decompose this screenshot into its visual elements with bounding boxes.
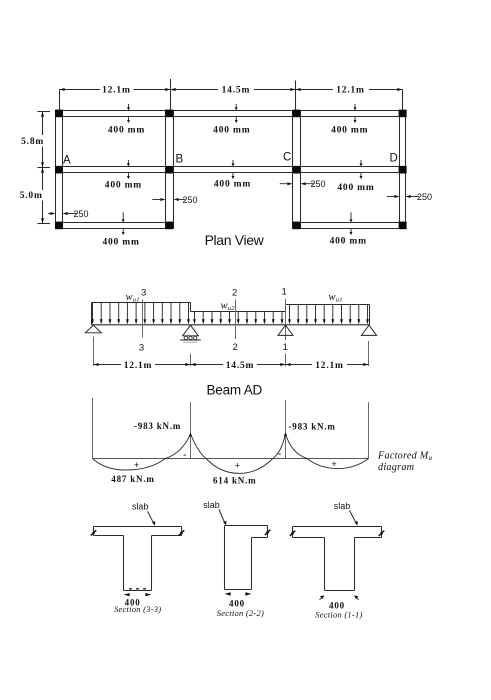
svg-text:400 mm: 400 mm — [331, 126, 368, 136]
column B-b (black square) — [165, 222, 173, 230]
top dimension extension line at B — [170, 79, 172, 110]
section 2-2: slab label + leader — [203, 500, 226, 526]
svg-text:2: 2 — [233, 342, 238, 353]
column C-m (black square) — [292, 166, 300, 174]
svg-text:wu1: wu1 — [329, 292, 343, 304]
moment diagram baseline — [93, 458, 369, 460]
moment diagram vertical at B — [190, 402, 192, 458]
label 400 mm (b row at x=348.2) with arrows — [330, 212, 367, 246]
svg-text:5.0m: 5.0m — [20, 191, 43, 201]
column line C (double vertical) — [293, 111, 301, 229]
svg-text:3: 3 — [141, 288, 146, 299]
moment curve — [93, 434, 369, 474]
svg-text:Factored Mu: Factored Mu — [377, 450, 433, 462]
section 3-3: rebar dashes — [129, 588, 146, 590]
beam line top (double) — [56, 111, 406, 117]
svg-text:400 mm: 400 mm — [213, 126, 250, 136]
column C-t (black square) — [292, 110, 300, 118]
svg-text:2: 2 — [232, 287, 237, 298]
svg-text:+: + — [235, 462, 241, 472]
support D (pin triangle) — [361, 325, 376, 335]
svg-text:wu2: wu2 — [221, 300, 236, 312]
beam dimension 12.1m (A-B) — [94, 361, 191, 371]
label 400 mm (m row at x=232.5) with arrows — [214, 160, 251, 189]
section 3-3: slab break marks — [91, 530, 185, 535]
label 400 mm (t row at x=231.8) with arrows — [213, 104, 250, 136]
column line D (double vertical) — [400, 111, 406, 229]
label 400 mm (t row at x=126.5) with arrows — [108, 104, 145, 136]
beam line bottom right bay (double) — [293, 223, 406, 229]
svg-text:Plan View: Plan View — [205, 232, 265, 248]
svg-text:487 kN.m: 487 kN.m — [111, 474, 154, 484]
svg-text:-983 kN.m: -983 kN.m — [289, 421, 336, 431]
caption Factored Mu diagram — [377, 450, 433, 473]
section 1-1: slab label + leader — [334, 501, 358, 526]
support A (pin triangle) — [85, 325, 101, 333]
label 250 at column D — [387, 192, 432, 202]
label 400 mm (b row at x=121.1) with arrows — [102, 212, 139, 247]
label 250 at column A — [48, 209, 89, 219]
svg-text:5.8m: 5.8m — [21, 137, 44, 147]
svg-text:C: C — [283, 152, 291, 164]
section 2-2: flange break mark — [265, 530, 271, 535]
beam line middle A-B-C-D (double) — [56, 167, 406, 173]
dimension 14.5m (B-C) — [171, 85, 296, 95]
svg-text:250: 250 — [74, 209, 89, 219]
label 400 mm (t row at x=349.7) with arrows — [331, 104, 368, 136]
column D-m (black square) — [399, 166, 407, 174]
column A-m (black square) — [55, 166, 63, 174]
section 2-2: 400 width arrows — [225, 592, 252, 595]
svg-text:slab: slab — [203, 500, 220, 510]
column A-b (black square) — [55, 222, 63, 230]
dimension 12.1m (A-B) — [60, 85, 171, 95]
svg-text:12.1m: 12.1m — [315, 361, 344, 371]
svg-text:diagram: diagram — [378, 462, 414, 473]
distributed load right span (rect + arrows) — [286, 305, 370, 325]
section 1-1: 400 width arrows — [320, 595, 359, 599]
moment diagram vertical at C — [285, 400, 287, 458]
svg-text:+: + — [134, 461, 140, 471]
svg-text:D: D — [390, 153, 398, 165]
beam dimension 14.5m (B-C) — [191, 361, 286, 371]
svg-text:400 mm: 400 mm — [337, 183, 374, 193]
svg-text:slab: slab — [132, 502, 149, 512]
column B-t (black square) — [165, 110, 173, 118]
label 400 mm (m row at x=123.4) with arrows — [105, 160, 142, 191]
column A-t (black square) — [55, 110, 63, 118]
section 1-1: web — [325, 538, 355, 591]
svg-text:B: B — [176, 154, 184, 166]
dimension 12.1m (C-D) — [296, 85, 403, 95]
moment diagram vertical at D — [368, 402, 370, 458]
distributed load middle span (rect + arrows) — [191, 312, 286, 325]
svg-text:12.1m: 12.1m — [102, 85, 131, 95]
svg-text:14.5m: 14.5m — [222, 85, 251, 95]
section line 2-2 — [232, 287, 238, 353]
svg-text:-983 kN.m: -983 kN.m — [134, 421, 181, 431]
svg-text:250: 250 — [183, 195, 198, 205]
svg-text:14.5m: 14.5m — [226, 361, 255, 371]
svg-text:Beam AD: Beam AD — [206, 382, 262, 397]
column C-b (black square) — [292, 222, 300, 230]
moment peak mark at C — [284, 432, 287, 436]
svg-text:400 mm: 400 mm — [214, 179, 251, 189]
support B (roller: triangle + circles + ground line) — [180, 325, 201, 342]
top dimension extension line at C — [295, 81, 297, 110]
svg-text:-: - — [183, 449, 187, 460]
svg-text:250: 250 — [311, 179, 326, 189]
support C (pin triangle) — [278, 325, 293, 335]
svg-text:3: 3 — [139, 343, 144, 354]
label 250 at column B — [152, 195, 197, 205]
beam dim extension lines — [94, 337, 369, 367]
svg-text:250: 250 — [417, 192, 432, 202]
beam AD horizontal line — [92, 324, 370, 326]
svg-text:400 mm: 400 mm — [108, 126, 145, 136]
column D-t (black square) — [399, 110, 407, 118]
svg-text:Section (1-1): Section (1-1) — [315, 610, 362, 620]
svg-text:1: 1 — [283, 342, 288, 353]
beam line bottom left bay (double) — [56, 223, 174, 229]
section 2-2: L-shaped beam outline — [225, 526, 268, 590]
column line B (double vertical) — [166, 111, 174, 229]
svg-text:Section (2-2): Section (2-2) — [217, 608, 264, 618]
svg-text:12.1m: 12.1m — [336, 85, 365, 95]
section 1-1: slab flange — [293, 527, 382, 538]
svg-text:400 mm: 400 mm — [105, 181, 142, 191]
svg-text:400: 400 — [229, 598, 245, 608]
column B-m (black square) — [165, 166, 173, 174]
section 3-3: slab label + leader — [132, 502, 155, 526]
column D-b (black square) — [399, 222, 407, 230]
left dimension line 5.8m / 5.0m — [20, 112, 50, 224]
moment peak mark at B — [189, 433, 192, 437]
svg-text:-: - — [278, 448, 282, 459]
svg-text:A: A — [63, 154, 71, 166]
label 250 at column C — [280, 179, 326, 189]
svg-text:614 kN.m: 614 kN.m — [213, 475, 256, 485]
svg-text:wu1: wu1 — [126, 292, 140, 304]
section 3-3: slab flange — [94, 527, 182, 536]
svg-text:400 mm: 400 mm — [330, 236, 367, 246]
top dimension extension line at A — [59, 90, 61, 110]
top dimension extension line at D — [402, 90, 404, 110]
section 3-3: web — [124, 536, 152, 591]
section 3-3: 400 width arrows — [124, 593, 152, 596]
svg-text:400 mm: 400 mm — [102, 238, 139, 248]
svg-text:slab: slab — [334, 501, 351, 511]
column line A (double vertical) — [56, 111, 63, 229]
svg-text:Section (3-3): Section (3-3) — [114, 604, 161, 614]
label 400 mm (m row at x=356.0) with arrows — [337, 160, 374, 193]
section line 1-1 — [282, 287, 288, 353]
svg-text:1: 1 — [282, 287, 287, 298]
section line 3-3 — [139, 288, 146, 354]
svg-text:+: + — [331, 460, 337, 470]
section 1-1: slab break marks — [290, 531, 385, 536]
distributed load left span (rect + arrows) — [91, 303, 190, 325]
moment diagram vertical at A — [92, 398, 94, 459]
beam dimension 12.1m (C-D) — [286, 361, 369, 371]
svg-text:12.1m: 12.1m — [124, 361, 153, 371]
